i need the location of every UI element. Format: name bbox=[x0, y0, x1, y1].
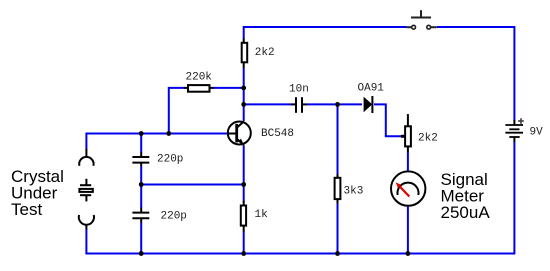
svg-text:3k3: 3k3 bbox=[344, 186, 364, 198]
svg-text:OA91: OA91 bbox=[358, 83, 385, 95]
svg-text:BC548: BC548 bbox=[261, 128, 294, 140]
svg-text:10n: 10n bbox=[289, 83, 309, 95]
svg-text:9V: 9V bbox=[530, 127, 544, 139]
svg-text:2k2: 2k2 bbox=[418, 133, 438, 145]
svg-text:220k: 220k bbox=[186, 71, 213, 83]
svg-text:250uA: 250uA bbox=[441, 203, 491, 222]
svg-text:2k2: 2k2 bbox=[255, 47, 275, 59]
svg-text:220p: 220p bbox=[157, 153, 183, 165]
svg-text:1k: 1k bbox=[255, 209, 269, 221]
svg-text:220p: 220p bbox=[161, 211, 187, 223]
svg-text:Test: Test bbox=[11, 200, 42, 219]
